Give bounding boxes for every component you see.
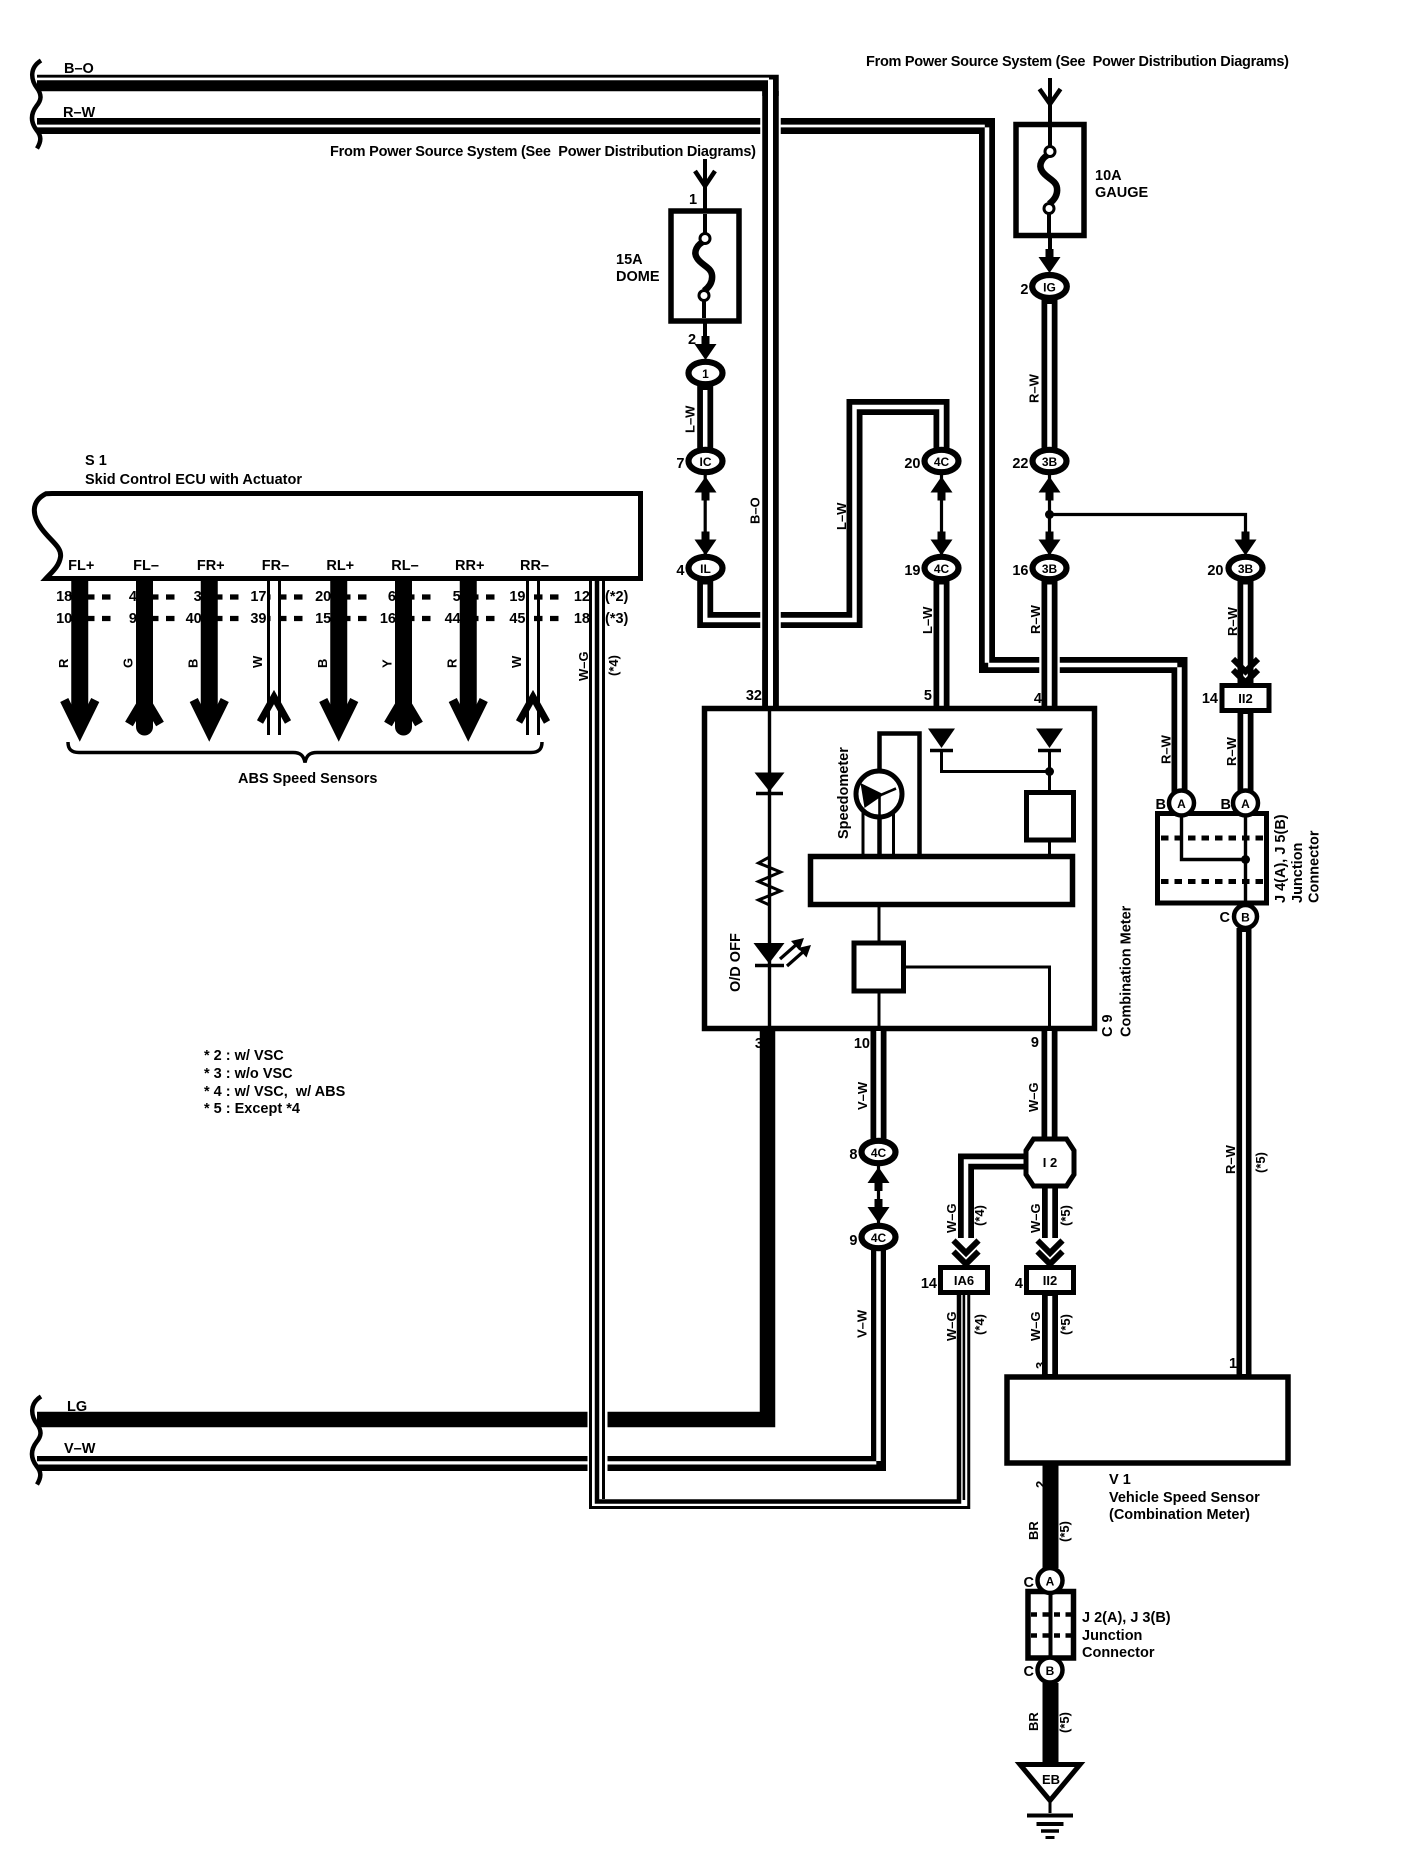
svg-text:RL+: RL+ (326, 558, 354, 574)
junction connector pin A (J2) (1038, 1568, 1063, 1593)
arrow solid down into IG (1039, 249, 1061, 273)
wire pin32 internal (768, 711, 771, 1026)
internal box B1 (1027, 793, 1074, 841)
svg-text:9: 9 (849, 1233, 857, 1249)
pin numbers row (*2): 18 4 3 17 20 6 5 19 12 (56, 589, 590, 605)
svg-text:II2: II2 (1238, 691, 1252, 706)
svg-text:RR–: RR– (520, 558, 549, 574)
wire 22 3B to 16 3B (1048, 474, 1051, 556)
svg-text:2: 2 (1020, 282, 1028, 298)
svg-text:GAUGE: GAUGE (1095, 185, 1149, 201)
svg-text:15A: 15A (616, 252, 643, 268)
svg-text:4C: 4C (934, 562, 950, 576)
wire BR (*5) J2 B to ground EB (solid thick) (1043, 1683, 1059, 1766)
svg-text:B: B (185, 659, 200, 668)
node dot (1045, 767, 1054, 776)
arrow solid down into connector 1 (695, 336, 717, 360)
svg-text:6: 6 (388, 589, 396, 605)
svg-text:J 4(A), J 5(B): J 4(A), J 5(B) (1273, 814, 1289, 903)
wire IC to IL (704, 474, 707, 556)
svg-text:J 2(A), J 3(B): J 2(A), J 3(B) (1082, 1610, 1171, 1626)
svg-text:9: 9 (129, 611, 137, 627)
svg-text:I 2: I 2 (1043, 1155, 1057, 1170)
arrow double chevron down into II2 14 (1233, 659, 1258, 683)
wire 15A DOME to connector 1 (703, 321, 707, 348)
svg-text:G: G (121, 658, 136, 668)
svg-text:R–W: R–W (1224, 736, 1239, 766)
svg-text:Combination Meter: Combination Meter (1119, 905, 1135, 1037)
svg-text:(*5): (*5) (1057, 1521, 1072, 1542)
svg-text:RL–: RL– (391, 558, 418, 574)
connector 19 4C (oval) (925, 557, 959, 579)
sensor wire FL+ (thick, arrow down) (71, 580, 88, 724)
dashed pin row (*3) (70, 616, 588, 621)
svg-text:* 3 : w/o VSC: * 3 : w/o VSC (204, 1066, 293, 1082)
J2 internal dashed rows (1031, 1612, 1071, 1617)
fuse 15A DOME box (671, 211, 739, 321)
svg-text:II2: II2 (1043, 1273, 1057, 1288)
svg-text:FL+: FL+ (68, 558, 94, 574)
connector 9 4C (oval) (862, 1226, 896, 1248)
svg-text:18: 18 (574, 611, 590, 627)
svg-text:5: 5 (453, 589, 461, 605)
wire diode D2 to node (942, 751, 1050, 772)
svg-text:B: B (1046, 1664, 1055, 1678)
svg-text:22: 22 (1012, 456, 1028, 472)
connector I2 (octagon) (1026, 1139, 1074, 1186)
wire into fuse 15A DOME (703, 159, 707, 212)
wire W-G (*4) channel S1 to IA6: outer line (591, 581, 969, 1508)
svg-text:R–W: R–W (1223, 1144, 1238, 1174)
svg-text:EB: EB (1042, 1772, 1060, 1787)
svg-text:W: W (509, 655, 524, 668)
arrow solid down into 9 4C (868, 1199, 890, 1223)
svg-text:IG: IG (1043, 281, 1056, 295)
wire R-W 16 3B to meter pin 4 (hollow) (1042, 581, 1058, 708)
connector IG (oval) (1032, 275, 1067, 298)
connector 20 3B (oval) (1229, 557, 1263, 579)
wire B1 to bar (1048, 840, 1051, 856)
svg-text:Connector: Connector (1307, 830, 1323, 903)
svg-text:20: 20 (1207, 563, 1223, 579)
sensor wire FL- (thick, arrow up) (136, 580, 153, 712)
speedometer drive box (880, 734, 920, 857)
connector IC (oval) (689, 450, 723, 472)
wire W-G channel middle line (597, 581, 959, 1502)
svg-text:10A: 10A (1095, 168, 1122, 184)
svg-text:4: 4 (1015, 1276, 1023, 1292)
svg-text:(*4): (*4) (606, 655, 621, 676)
connector IL (oval) (689, 557, 723, 579)
svg-text:Junction: Junction (1290, 843, 1306, 903)
svg-text:1: 1 (1229, 1356, 1237, 1372)
fuse 15A DOME element (704, 214, 705, 318)
svg-text:(*3): (*3) (605, 611, 629, 627)
svg-text:3B: 3B (1042, 455, 1058, 469)
wire 8 4C to 9 4C (877, 1165, 880, 1224)
ground symbol (1049, 1800, 1052, 1813)
connector 20 4C (oval) (925, 450, 959, 472)
wire V-W bus white core (37, 1461, 876, 1464)
node junction dot (1045, 510, 1054, 519)
svg-text:12: 12 (574, 589, 590, 605)
svg-text:B–O: B–O (64, 61, 94, 77)
connector 8 4C (oval) (862, 1141, 896, 1163)
svg-text:L–W: L–W (683, 405, 698, 433)
svg-text:C 9: C 9 (1100, 1014, 1116, 1037)
wire V-W meter pin 10 to 8 4C (hollow) (871, 1031, 887, 1140)
svg-text:4: 4 (1034, 691, 1042, 707)
sensor wire FR+ (thick, arrow down) (201, 580, 218, 724)
svg-text:8: 8 (849, 1147, 857, 1163)
diode D3 (pin 4) (1036, 729, 1063, 749)
arrow chevron down (from power source to 15A) (695, 171, 715, 186)
svg-text:19: 19 (904, 563, 920, 579)
ground EB triangle (1020, 1765, 1080, 1801)
wire R-W bus white core (37, 125, 985, 128)
svg-text:BR: BR (1026, 1712, 1041, 1731)
wire 10A to IG (1048, 235, 1052, 262)
svg-text:32: 32 (746, 688, 762, 704)
wire L-W connector 1 to IC (hollow) (697, 386, 713, 449)
svg-text:4C: 4C (934, 455, 950, 469)
wire L-W 19 4C to meter pin 5 (hollow) (934, 581, 950, 708)
svg-text:DOME: DOME (616, 269, 660, 285)
svg-text:Skid Control ECU with Actuator: Skid Control ECU with Actuator (85, 472, 302, 488)
junction internal dashed rows (1161, 836, 1263, 841)
meter internal bar (811, 857, 1073, 905)
svg-text:44: 44 (445, 611, 461, 627)
resistor R1 (O/D OFF circuit) (759, 857, 781, 905)
sensor wire RR- (thin pair, arrow up) (526, 580, 529, 735)
svg-text:10: 10 (854, 1036, 870, 1052)
wire W-G (*5) I2 to II2 (hollow) (1042, 1186, 1058, 1238)
svg-text:9: 9 (1031, 1035, 1039, 1051)
svg-text:17: 17 (250, 589, 266, 605)
svg-text:W–G: W–G (1026, 1082, 1041, 1112)
svg-text:IL: IL (700, 562, 711, 576)
svg-text:L–W: L–W (834, 502, 849, 530)
torn-edge brace bottom-left buses (32, 1397, 41, 1485)
svg-text:(*5): (*5) (1057, 1712, 1072, 1733)
arrow chevron down (from power source to 10A) (1040, 89, 1061, 104)
sensor wire RL- (thick, arrow up) (395, 580, 412, 712)
arrow solid up into 22 3B (1039, 477, 1061, 501)
arrow double chevron down into IA6 (954, 1241, 979, 1265)
wire R-W (*5) junction B to V1 pin 1 (hollow) (1237, 928, 1252, 1377)
svg-text:14: 14 (1202, 691, 1218, 707)
sensor wire RR+ (thick, arrow down) (460, 580, 477, 724)
wire B2 right to pin 9 (904, 967, 1050, 1026)
svg-text:R–W: R–W (63, 105, 96, 121)
connector IA6 box (941, 1268, 988, 1293)
svg-text:39: 39 (250, 611, 266, 627)
svg-text:1: 1 (702, 367, 709, 381)
svg-text:V–W: V–W (855, 1309, 870, 1338)
internal box B2 (854, 943, 904, 991)
svg-text:B: B (315, 659, 330, 668)
speedometer gauge circle (856, 771, 902, 817)
wire halo where pin-4 wire crosses R-W run (1039, 646, 1060, 685)
svg-text:A: A (1241, 797, 1250, 811)
svg-text:(Combination Meter): (Combination Meter) (1109, 1507, 1250, 1523)
svg-text:* 2 : w/ VSC: * 2 : w/ VSC (204, 1048, 284, 1064)
svg-text:IA6: IA6 (954, 1273, 974, 1288)
svg-text:(*5): (*5) (1058, 1314, 1073, 1335)
svg-text:R–W: R–W (1027, 373, 1042, 403)
svg-text:W–G: W–G (576, 651, 591, 681)
svg-text:4C: 4C (871, 1231, 887, 1245)
svg-text:B: B (1221, 797, 1231, 813)
svg-text:(*4): (*4) (972, 1205, 987, 1226)
wire LG bus (bottom left, solid thick, to combination meter pin 3) (37, 1029, 768, 1420)
box V1 Vehicle Speed Sensor (1007, 1377, 1288, 1463)
junction connector pin B (bottom circle) (1234, 905, 1257, 928)
svg-text:C: C (1220, 910, 1231, 926)
svg-text:FR–: FR– (262, 558, 289, 574)
svg-text:3B: 3B (1042, 562, 1058, 576)
wire W-G (*5) II2 to V1 pin 3 (hollow) (1042, 1293, 1058, 1377)
svg-text:* 4 : w/ VSC, w/ ABS: * 4 : w/ VSC, w/ ABS (204, 1084, 346, 1100)
wire R-W bus (top, from power source, hollow run: right, down, right, down to junction J4 pin A) (37, 126, 1180, 800)
svg-text:ABS Speed Sensors: ABS Speed Sensors (238, 771, 377, 787)
dashed pin row (*2) (70, 594, 588, 599)
svg-text:R–W: R–W (1159, 734, 1174, 764)
svg-text:W: W (250, 655, 265, 668)
svg-text:19: 19 (509, 589, 525, 605)
svg-text:14: 14 (921, 1276, 937, 1292)
svg-text:R: R (56, 658, 71, 668)
connector 1 (oval) (689, 362, 723, 384)
junction internal wires (1182, 816, 1246, 903)
wire diode D3 down to box B1 (1048, 751, 1051, 793)
arrow solid down into 16 3B (1039, 532, 1061, 556)
LED O/D OFF (754, 943, 785, 964)
sensor wire FR- (thin pair, arrow up) (267, 580, 270, 735)
torn-edge brace top-left buses (32, 61, 41, 149)
wire B-O bus white core (37, 78, 769, 81)
svg-text:O/D OFF: O/D OFF (728, 933, 744, 992)
wire W-G bundle white backing across buses (588, 1406, 608, 1475)
J2 internal vertical wire (1049, 1591, 1053, 1658)
svg-text:From Power Source System (See: From Power Source System (See Power Dist… (866, 54, 1289, 70)
svg-text:(*5): (*5) (1253, 1152, 1268, 1173)
svg-text:4C: 4C (871, 1146, 887, 1160)
svg-text:FR+: FR+ (197, 558, 225, 574)
wire R-W II2 to junction A (hollow) (1238, 711, 1254, 801)
svg-text:3: 3 (194, 589, 202, 605)
svg-text:15: 15 (315, 611, 331, 627)
svg-text:B–O: B–O (748, 497, 763, 524)
wire 20 4C to 19 4C (940, 474, 943, 556)
svg-text:S 1: S 1 (85, 453, 107, 469)
svg-text:From Power Source System (See: From Power Source System (See Power Dist… (330, 144, 756, 160)
svg-text:R: R (444, 658, 459, 668)
speedometer leads (863, 812, 894, 856)
arrow solid up into IC (695, 477, 717, 501)
svg-text:W–G: W–G (1028, 1311, 1043, 1341)
svg-text:W–G: W–G (1028, 1203, 1043, 1233)
svg-text:IC: IC (700, 455, 712, 469)
diode D1 (O/D OFF circuit) (755, 773, 785, 792)
svg-text:C: C (1024, 1575, 1035, 1591)
svg-text:3: 3 (755, 1036, 763, 1052)
connector II2 (14) box (1222, 686, 1269, 711)
svg-text:4: 4 (676, 563, 684, 579)
svg-text:RR+: RR+ (455, 558, 484, 574)
svg-text:20: 20 (315, 589, 331, 605)
svg-text:W–G: W–G (944, 1203, 959, 1233)
arrow double chevron down into II2 (1038, 1241, 1063, 1265)
box J4(A) J5(B) junction connector (1158, 814, 1267, 904)
wire V-W bus (bottom left, hollow, to connector 9 4C) (37, 1250, 879, 1464)
wire R-W IG to 22 3B (hollow) (1042, 300, 1058, 449)
svg-text:45: 45 (509, 611, 525, 627)
svg-text:V–W: V–W (855, 1081, 870, 1110)
connector 22 3B (oval) (1033, 450, 1067, 472)
wire W-G channel inner short lines (602, 581, 605, 1499)
svg-text:10: 10 (56, 611, 72, 627)
pin numbers row (*3): 10 9 40 39 15 16 44 45 18 (56, 611, 590, 627)
svg-text:B: B (1156, 797, 1166, 813)
svg-text:R–W: R–W (1225, 606, 1240, 636)
svg-text:(*2): (*2) (605, 589, 629, 605)
arrow solid down into 20 3B (1235, 532, 1257, 556)
svg-text:4: 4 (129, 589, 137, 605)
wire bar to box B2 (878, 905, 881, 944)
svg-text:B: B (1241, 911, 1250, 925)
svg-text:* 5 : Except *4: * 5 : Except *4 (204, 1101, 300, 1117)
junction connector pin A (left circle) (1169, 791, 1194, 816)
connector II2 (4) box (1027, 1268, 1074, 1293)
white gaps for pin numbers (113, 586, 590, 623)
svg-text:V–W: V–W (64, 1441, 96, 1457)
arrow solid down into IL (695, 532, 717, 556)
connector 16 3B (oval) (1033, 557, 1067, 579)
junction connector pin A (right circle) (1233, 791, 1258, 816)
svg-text:18: 18 (56, 589, 72, 605)
svg-text:20: 20 (904, 456, 920, 472)
svg-text:5: 5 (924, 688, 932, 704)
svg-text:(*5): (*5) (1058, 1205, 1073, 1226)
svg-text:BR: BR (1026, 1521, 1041, 1540)
wire B2 to pin 10 (878, 991, 881, 1026)
wire L-W from IL: down, right, up, right, down into 20 4C (hollow) (705, 407, 941, 620)
svg-text:LG: LG (67, 1399, 87, 1415)
wire B-O bus (top, hollow run: right then down to combination meter pin 32) (37, 83, 771, 708)
svg-text:A: A (1177, 797, 1186, 811)
svg-text:(*4): (*4) (972, 1314, 987, 1335)
box J2(A) J3(B) junction connector (1028, 1592, 1074, 1659)
wire B-O vertical repaint with halo (over horizontals) (760, 96, 781, 650)
wire into fuse 10A GAUGE (1048, 78, 1052, 125)
wire W-G meter pin 9 to I2 (hollow) (1042, 1031, 1058, 1140)
svg-text:Vehicle Speed Sensor: Vehicle Speed Sensor (1109, 1490, 1260, 1506)
wire BR (*5) V1 pin 2 to junction (solid thick) (1043, 1463, 1059, 1568)
wire branch to 20 3B (1050, 515, 1246, 537)
svg-text:7: 7 (676, 456, 684, 472)
arrow solid down into 19 4C (931, 532, 953, 556)
svg-text:1: 1 (689, 192, 697, 208)
svg-text:Connector: Connector (1082, 1645, 1155, 1661)
wire R-W 20 3B to II2 pin 14 (hollow) (1238, 581, 1254, 685)
svg-text:40: 40 (186, 611, 202, 627)
fuse 10A GAUGE box (1016, 125, 1084, 236)
svg-text:W–G: W–G (944, 1311, 959, 1341)
svg-text:2: 2 (688, 332, 696, 348)
brace ABS speed sensors (68, 742, 542, 763)
arrow solid up into 20 4C (931, 477, 953, 501)
svg-text:Speedometer: Speedometer (836, 747, 852, 839)
arrow solid up into 8 4C (868, 1167, 890, 1191)
svg-text:3B: 3B (1238, 562, 1254, 576)
svg-text:R–W: R–W (1028, 604, 1043, 634)
junction connector pin B (J2 bottom) (1038, 1658, 1063, 1683)
svg-text:C: C (1024, 1664, 1035, 1680)
svg-text:16: 16 (380, 611, 396, 627)
svg-text:L–W: L–W (920, 606, 935, 634)
svg-text:V 1: V 1 (1109, 1472, 1131, 1488)
diode D2 (pin 5) (928, 729, 955, 749)
svg-text:Y: Y (380, 659, 395, 668)
svg-text:Junction: Junction (1082, 1628, 1142, 1644)
wire W-G (*4) I2 to IA6 (hollow, left then down) (966, 1162, 1026, 1239)
node dot in junction (1241, 855, 1250, 864)
svg-text:FL–: FL– (133, 558, 159, 574)
box S1 Skid Control ECU with torn left edge (34, 494, 640, 579)
svg-text:A: A (1046, 1575, 1055, 1589)
fuse 10A GAUGE element (1049, 127, 1050, 233)
box C9 Combination Meter (705, 709, 1095, 1029)
sensor wire RL+ (thick, arrow down) (330, 580, 347, 724)
svg-text:16: 16 (1012, 563, 1028, 579)
